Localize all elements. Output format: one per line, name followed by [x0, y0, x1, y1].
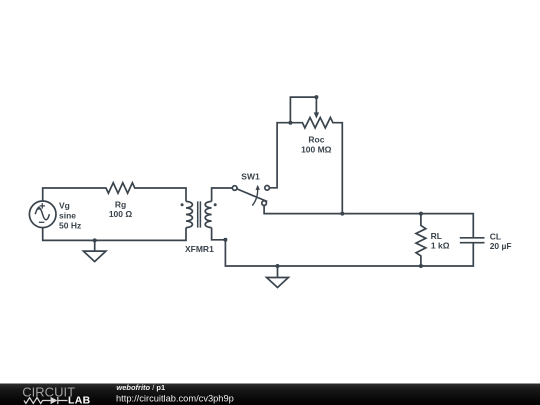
- svg-text:LAB: LAB: [68, 395, 91, 405]
- svg-text:100 Ω: 100 Ω: [109, 209, 133, 219]
- svg-text:SW1: SW1: [241, 172, 260, 182]
- svg-text:50 Hz: 50 Hz: [59, 220, 81, 230]
- svg-text:20 µF: 20 µF: [490, 241, 512, 251]
- svg-text:Vg: Vg: [59, 201, 70, 211]
- svg-text:1 kΩ: 1 kΩ: [431, 240, 450, 250]
- svg-text:Roc: Roc: [308, 135, 324, 145]
- svg-text:Rg: Rg: [115, 200, 126, 210]
- svg-text:http://circuitlab.com/cv3ph9p: http://circuitlab.com/cv3ph9p: [116, 393, 234, 403]
- svg-text:webofrito / p1: webofrito / p1: [116, 383, 165, 392]
- svg-text:sine: sine: [59, 210, 76, 220]
- svg-text:XFMR1: XFMR1: [185, 244, 214, 254]
- svg-text:100 MΩ: 100 MΩ: [301, 144, 332, 154]
- svg-text:CL: CL: [490, 231, 501, 241]
